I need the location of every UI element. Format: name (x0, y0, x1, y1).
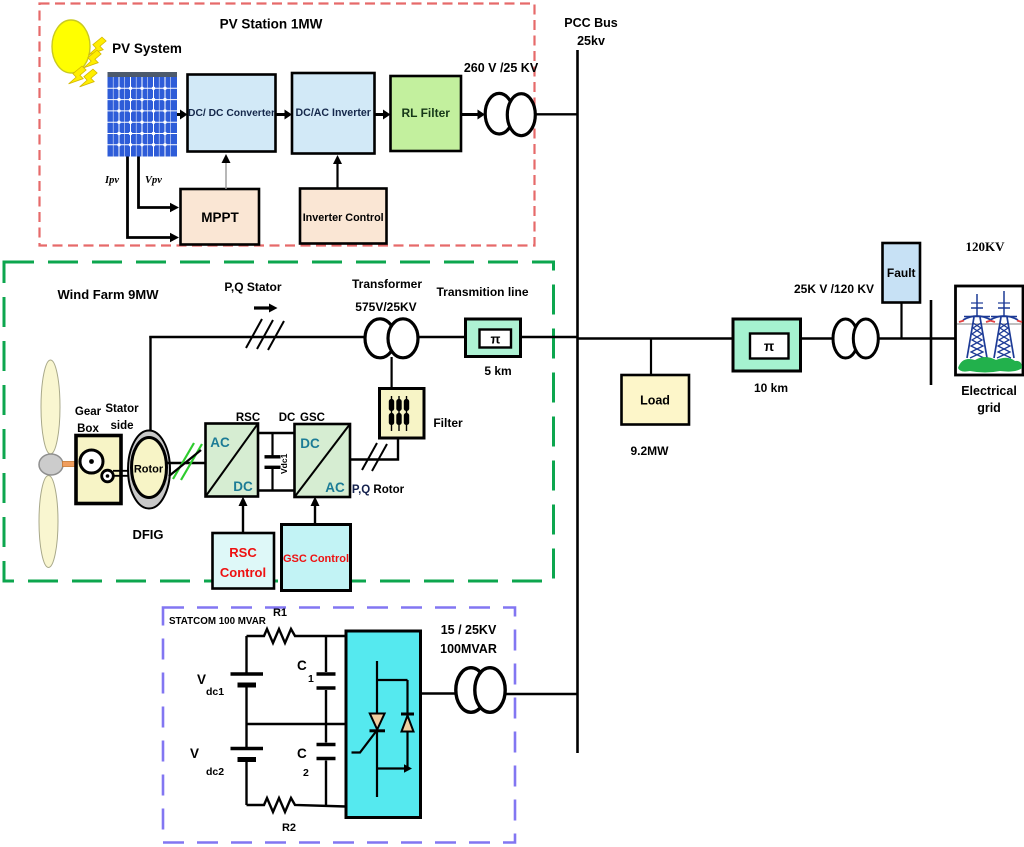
Fault block (883, 243, 921, 303)
wire T2 to pi section (418, 336, 466, 338)
arrow P,Q stator (254, 304, 278, 313)
transformer T2 (575V/25KV) (365, 319, 418, 358)
wire T1 to PCC bus (536, 113, 578, 115)
svg-text:Stator: Stator (105, 403, 139, 415)
arrow RSC Control to RSC (239, 497, 248, 534)
svg-text:dc1: dc1 (206, 686, 224, 698)
svg-text:GSC: GSC (300, 412, 325, 424)
arrow panel to DC/DC (177, 110, 188, 120)
thyristor bridge inside (377, 661, 408, 797)
arrow RL filter to transformer T1 (461, 110, 485, 120)
wire Ipv (panel to MPPT) (128, 157, 180, 243)
transformer T1 (PV, 260V/25KV) (485, 93, 535, 135)
GSC Control block (282, 525, 351, 591)
svg-text:Rotor: Rotor (134, 464, 164, 476)
svg-text:Box: Box (77, 423, 99, 435)
svg-text:dc2: dc2 (206, 766, 224, 778)
Load block (622, 375, 690, 425)
Inverter Control block (300, 189, 387, 244)
svg-text:Ipv: Ipv (104, 175, 119, 186)
RSC Control block (213, 533, 275, 589)
svg-text:STATCOM 100 MVAR: STATCOM 100 MVAR (169, 616, 266, 627)
svg-text:Vdc1: Vdc1 (279, 453, 289, 474)
svg-text:Fault: Fault (887, 266, 916, 280)
svg-text:DC: DC (300, 436, 320, 451)
wire converter to transformer T4 (421, 692, 457, 695)
sun rays (lightning bolts) (68, 35, 108, 92)
wire fault stub (900, 303, 902, 339)
wire stator to transformer T2 (149, 336, 366, 338)
capacitor C1 (317, 636, 336, 724)
svg-text:Gear: Gear (75, 406, 102, 418)
svg-text:DC/ DC Converter: DC/ DC Converter (188, 108, 275, 119)
svg-text:260 V /25 KV: 260 V /25 KV (464, 61, 539, 75)
svg-text:MPPT: MPPT (201, 210, 239, 225)
svg-text:Filter: Filter (433, 416, 463, 430)
thyristor Q1 (352, 714, 386, 753)
battery Vdc2 (231, 724, 264, 805)
diode D1 (401, 714, 414, 732)
MPPT block (181, 189, 260, 245)
svg-text:DC: DC (279, 412, 296, 424)
capacitor C2 (317, 724, 336, 806)
DC link wires (258, 432, 295, 434)
svg-text:575V/25KV: 575V/25KV (355, 300, 416, 314)
svg-text:PV Station 1MW: PV Station 1MW (220, 17, 323, 32)
tower 2 (990, 291, 1018, 358)
svg-text:grid: grid (977, 401, 1001, 415)
turbine hub (39, 454, 63, 475)
stator slashes (246, 319, 284, 350)
STATCOM bottom wire with resistor R2 (247, 798, 347, 812)
filter box (380, 389, 425, 439)
rotor-side slashes to filter (362, 443, 387, 471)
svg-text:Electrical: Electrical (961, 384, 1017, 398)
svg-text:C: C (297, 746, 307, 761)
arrow MPPT to DC/DC (222, 154, 231, 189)
svg-text:25kv: 25kv (577, 34, 605, 48)
svg-text:Transformer: Transformer (352, 277, 422, 291)
pi section 5km (466, 319, 521, 357)
svg-text:5 km: 5 km (484, 364, 511, 378)
wire pi 10km to transformer T3 (801, 337, 835, 339)
wire to load (650, 339, 652, 376)
PCC bus (576, 50, 579, 753)
svg-text:DC: DC (233, 479, 253, 494)
svg-text:side: side (110, 420, 133, 432)
STATCOM top wire with resistor R1 (247, 629, 347, 643)
svg-text:RSC: RSC (229, 545, 257, 560)
arrow DC/AC to RL filter (375, 110, 391, 120)
wire Vpv (panel to MPPT) (139, 157, 180, 213)
svg-text:P,Q Stator: P,Q Stator (224, 280, 281, 294)
wire rotor top to stator bus (149, 336, 151, 431)
STATCOM boundary (purple dashed box) (163, 608, 515, 843)
svg-text:GSC Control: GSC Control (283, 553, 349, 565)
turbine shaft (orange) (63, 462, 78, 467)
svg-text:9.2MW: 9.2MW (630, 444, 669, 458)
converter U2: DC/AC Inverter (292, 73, 375, 154)
gear box (76, 436, 121, 504)
main wire PCC bus to pi 10km (578, 337, 734, 339)
wire T4 to PCC bus (505, 693, 577, 696)
battery Vdc1 (231, 636, 264, 724)
converter RSC (AC/DC) (206, 424, 259, 497)
svg-text:C: C (297, 658, 307, 673)
wind turbine blades (41, 360, 60, 454)
shaft gearbox to rotor (113, 471, 132, 476)
svg-text:1: 1 (308, 673, 314, 685)
svg-text:25K V /120 KV: 25K V /120 KV (794, 282, 874, 296)
electrical grid box (956, 286, 1024, 375)
tower 1 (963, 294, 991, 358)
grass (958, 357, 1022, 373)
DC link capacitor Vdc1 (265, 433, 281, 491)
svg-text:AC: AC (325, 480, 345, 495)
svg-text:DC/AC Inverter: DC/AC Inverter (296, 107, 371, 119)
svg-text:R1: R1 (273, 607, 287, 619)
bus bar before grid (930, 300, 933, 385)
svg-text:15 / 25KV: 15 / 25KV (441, 623, 497, 637)
svg-text:10 km: 10 km (754, 381, 788, 395)
svg-text:V: V (190, 746, 199, 761)
rotor (DFIG) (128, 431, 170, 509)
arrow Inverter Control to DC/AC (333, 155, 342, 189)
svg-text:Wind Farm 9MW: Wind Farm 9MW (58, 287, 160, 302)
svg-text:π: π (764, 339, 774, 354)
sun (52, 20, 90, 73)
wire GSC to filter (350, 439, 398, 460)
svg-text:P,Q Rotor: P,Q Rotor (352, 484, 405, 496)
svg-text:R2: R2 (282, 822, 296, 834)
arrow GSC Control to GSC (311, 497, 320, 525)
svg-text:Transmition line: Transmition line (436, 285, 528, 299)
svg-text:DFIG: DFIG (132, 527, 163, 542)
svg-text:RL Filter: RL Filter (401, 106, 450, 120)
svg-text:2: 2 (303, 767, 309, 779)
transformer T4 (STATCOM 15/25KV) (456, 668, 505, 713)
converter GSC (DC/AC) (295, 424, 351, 497)
PV panel (108, 72, 178, 157)
svg-text:PV System: PV System (112, 41, 182, 56)
STATCOM converter box (cyan) (346, 631, 421, 818)
converter U1: DC/DC Converter (188, 75, 276, 152)
svg-text:Control: Control (220, 565, 266, 580)
wire T3 to grid (878, 337, 955, 339)
Wind Farm boundary (green dashed box) (4, 262, 554, 581)
rotor slashes (green/black) (169, 443, 202, 480)
pi section 10km (733, 319, 801, 371)
svg-text:100MVAR: 100MVAR (440, 642, 497, 656)
PV Station boundary (red dashed box) (40, 4, 535, 246)
svg-text:AC: AC (210, 435, 230, 450)
wire rotor to RSC (167, 462, 206, 464)
svg-text:RSC: RSC (236, 412, 260, 424)
RL Filter (391, 76, 462, 151)
svg-text:Load: Load (640, 394, 670, 408)
svg-text:120KV: 120KV (966, 239, 1006, 254)
svg-text:V: V (197, 672, 206, 687)
wire transformer T2 to filter (391, 357, 393, 389)
svg-text:π: π (491, 332, 501, 347)
wire pi section to PCC bus (521, 336, 578, 338)
svg-text:Vpv: Vpv (145, 175, 162, 186)
svg-text:Inverter Control: Inverter Control (303, 212, 384, 224)
transformer T3 (25KV/120KV) (833, 319, 878, 358)
STATCOM middle wire (247, 723, 347, 726)
arrow DC/DC to DC/AC (276, 110, 293, 120)
svg-text:PCC Bus: PCC Bus (564, 16, 618, 30)
